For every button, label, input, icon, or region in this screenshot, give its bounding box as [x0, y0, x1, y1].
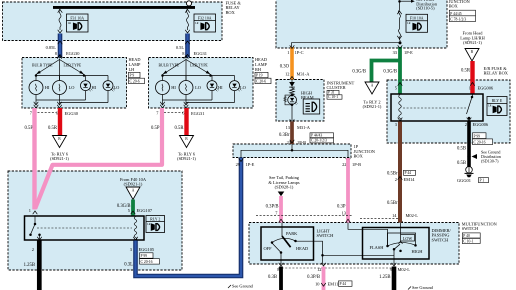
svg-text:(SD921-1): (SD921-1): [463, 40, 482, 45]
svg-text:F31 10A: F31 10A: [70, 16, 84, 20]
svg-text:LH: LH: [129, 67, 135, 72]
svg-text:C 10-1: C 10-1: [463, 239, 473, 243]
svg-text:(SD921-1): (SD921-1): [50, 156, 69, 161]
svg-text:OFF: OFF: [264, 246, 273, 251]
svg-text:P 44/45: P 44/45: [450, 12, 461, 16]
svg-text:12: 12: [317, 267, 321, 272]
svg-text:EGG107: EGG107: [137, 208, 153, 213]
svg-text:EGG105: EGG105: [139, 247, 155, 252]
svg-text:BOX: BOX: [226, 10, 236, 15]
svg-text:CLUSTER: CLUSTER: [327, 85, 346, 90]
svg-text:RELAY BOX: RELAY BOX: [484, 71, 509, 76]
svg-text:1.25B: 1.25B: [24, 263, 35, 268]
svg-text:(SD928-1): (SD928-1): [275, 185, 294, 190]
svg-text:BULB TYPE: BULB TYPE: [32, 64, 53, 68]
svg-text:SWITCH: SWITCH: [432, 237, 450, 242]
svg-text:P 40: P 40: [463, 234, 470, 238]
svg-text:(SD921-1): (SD921-1): [177, 156, 196, 161]
svg-text:LR: LR: [195, 22, 199, 25]
svg-text:EM14: EM14: [404, 177, 416, 182]
svg-text:P 44/43: P 44/43: [311, 134, 322, 138]
svg-text:1P-E: 1P-E: [404, 50, 413, 55]
svg-text:HI: HI: [218, 85, 223, 90]
svg-text:(SD921-1): (SD921-1): [363, 104, 382, 109]
svg-text:EGG31: EGG31: [191, 111, 204, 116]
svg-text:C 20-6: C 20-6: [130, 79, 140, 83]
svg-text:12: 12: [285, 71, 289, 76]
svg-text:1P-B: 1P-B: [352, 162, 361, 167]
svg-text:0.3P/B: 0.3P/B: [307, 275, 320, 280]
svg-text:PARK: PARK: [286, 231, 298, 236]
svg-text:EGG006: EGG006: [473, 122, 489, 127]
svg-text:P 19: P 19: [256, 74, 263, 78]
svg-text:A: A: [371, 84, 374, 88]
svg-text:C 20-16: C 20-16: [141, 260, 153, 264]
svg-text:M02-L: M02-L: [406, 213, 419, 218]
svg-text:EGG30: EGG30: [66, 51, 80, 56]
svg-text:0.5B: 0.5B: [457, 161, 466, 166]
svg-text:(SD921-1): (SD921-1): [124, 182, 143, 187]
svg-text:GGG01: GGG01: [457, 178, 471, 183]
svg-text:P 99: P 99: [474, 134, 481, 138]
svg-text:P 99: P 99: [141, 254, 148, 258]
svg-text:0.3Br: 0.3Br: [279, 133, 290, 138]
svg-text:F32 10A: F32 10A: [198, 16, 212, 20]
svg-text:HIGH: HIGH: [412, 249, 424, 254]
svg-text:0.5R: 0.5R: [461, 68, 471, 73]
svg-text:(SD110-5): (SD110-5): [416, 6, 435, 11]
svg-text:0.3G/B: 0.3G/B: [383, 70, 397, 75]
svg-text:0.5P: 0.5P: [25, 126, 34, 131]
svg-text:M31-A: M31-A: [297, 71, 311, 76]
svg-text:1: 1: [469, 86, 471, 91]
svg-text:0.5P: 0.5P: [151, 126, 160, 131]
svg-text:1P-E: 1P-E: [246, 162, 255, 167]
svg-text:RLY 2: RLY 2: [150, 217, 160, 221]
svg-text:HI: HI: [92, 85, 97, 90]
svg-text:0.85L: 0.85L: [46, 45, 57, 50]
svg-text:22: 22: [342, 162, 346, 167]
svg-text:0.5R: 0.5R: [175, 126, 185, 131]
svg-text:C 78-1/2/3: C 78-1/2/3: [450, 18, 466, 22]
svg-text:C 20-1/2/3: C 20-1/2/3: [311, 139, 327, 143]
svg-text:0.5Br: 0.5Br: [387, 201, 398, 206]
svg-text:C 20-6: C 20-6: [256, 79, 266, 83]
svg-text:1: 1: [287, 50, 289, 55]
svg-text:HEAD: HEAD: [296, 246, 308, 251]
svg-text:M02-L: M02-L: [398, 267, 411, 272]
svg-text:0.3L: 0.3L: [124, 263, 133, 268]
svg-text:P 44: P 44: [405, 171, 412, 175]
svg-text:C 10-1: C 10-1: [328, 95, 338, 99]
svg-text:LO: LO: [69, 85, 75, 90]
svg-text:BOX: BOX: [354, 154, 364, 159]
svg-text:LR: LR: [147, 223, 151, 226]
svg-text:BOX: BOX: [449, 3, 459, 8]
svg-text:1.25B: 1.25B: [379, 275, 390, 280]
svg-text:0.5L: 0.5L: [176, 45, 184, 50]
svg-text:HI: HI: [45, 85, 50, 90]
svg-text:2: 2: [395, 177, 397, 182]
svg-text:A: A: [132, 189, 135, 193]
svg-text:LOW: LOW: [403, 236, 412, 241]
svg-text:LO: LO: [195, 85, 201, 90]
svg-text:RLY E: RLY E: [492, 99, 503, 103]
svg-text:See Ground: See Ground: [412, 285, 434, 290]
svg-text:0.5R: 0.5R: [48, 126, 58, 131]
svg-text:0.3G/B: 0.3G/B: [352, 70, 366, 75]
svg-text:SWITCH: SWITCH: [317, 233, 335, 238]
svg-text:EGG006: EGG006: [478, 86, 494, 91]
svg-text:EM11: EM11: [328, 281, 339, 286]
svg-text:M31-A: M31-A: [297, 125, 311, 130]
svg-text:EGG31: EGG31: [194, 51, 207, 56]
svg-text:FLASH: FLASH: [370, 245, 385, 250]
svg-text:LR: LR: [407, 22, 411, 25]
svg-text:0.3P/B: 0.3P/B: [266, 204, 279, 209]
svg-text:0.3O: 0.3O: [280, 64, 290, 69]
svg-text:HI: HI: [171, 85, 176, 90]
svg-text:P 1: P 1: [480, 178, 485, 182]
svg-text:P 31: P 31: [328, 91, 335, 95]
svg-text:C 20-16: C 20-16: [474, 140, 486, 144]
svg-text:0.5Br: 0.5Br: [387, 171, 398, 176]
svg-text:BULB TYPE: BULB TYPE: [159, 64, 180, 68]
svg-text:2: 2: [32, 247, 34, 252]
svg-text:(SD130-7): (SD130-7): [481, 159, 499, 164]
svg-text:P 44: P 44: [340, 282, 347, 286]
svg-text:0.3B: 0.3B: [268, 275, 277, 280]
svg-text:0.5B: 0.5B: [457, 146, 466, 151]
svg-text:LED TYPE: LED TYPE: [190, 64, 208, 68]
svg-text:LED TYPE: LED TYPE: [64, 64, 82, 68]
svg-text:LR: LR: [68, 22, 72, 25]
svg-text:1: 1: [29, 208, 31, 213]
svg-text:RH: RH: [255, 67, 261, 72]
svg-text:LO: LO: [240, 85, 246, 90]
svg-text:SWITCH: SWITCH: [462, 226, 478, 231]
svg-text:1P-B: 1P-B: [297, 140, 306, 145]
svg-text:1P-C: 1P-C: [295, 50, 304, 55]
svg-text:0.3P: 0.3P: [337, 204, 346, 209]
svg-text:2: 2: [465, 122, 467, 127]
svg-text:See Ground: See Ground: [232, 284, 254, 289]
svg-text:P 9: P 9: [130, 74, 135, 78]
svg-text:LO: LO: [114, 85, 120, 90]
svg-text:LR: LR: [488, 105, 492, 108]
svg-text:EGG30: EGG30: [65, 111, 79, 116]
svg-text:F10 10A: F10 10A: [410, 17, 424, 21]
